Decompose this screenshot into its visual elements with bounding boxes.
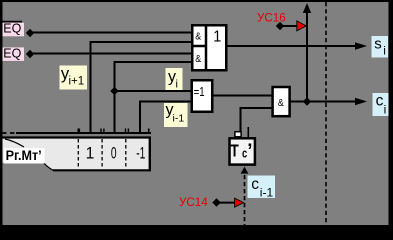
svg-text:УС14: УС14 xyxy=(179,195,208,209)
svg-text:Рг.Мт’: Рг.Мт’ xyxy=(6,148,42,164)
svg-text:&: & xyxy=(278,97,284,109)
svg-text:=1: =1 xyxy=(194,86,205,100)
svg-text:i-1: i-1 xyxy=(260,186,274,200)
svg-text:’: ’ xyxy=(247,141,252,162)
svg-text:0: 0 xyxy=(111,144,117,162)
svg-text:i: i xyxy=(384,103,387,117)
svg-text:УС16: УС16 xyxy=(257,10,286,24)
svg-text:EQ: EQ xyxy=(3,46,21,60)
svg-text:i-1: i-1 xyxy=(173,113,185,125)
svg-text:c: c xyxy=(251,176,259,193)
svg-text:EQ: EQ xyxy=(3,21,21,35)
svg-text:1: 1 xyxy=(86,144,95,162)
svg-text:1: 1 xyxy=(213,28,221,46)
svg-text:&: & xyxy=(195,31,201,43)
svg-text:i: i xyxy=(383,44,386,58)
svg-text:c: c xyxy=(376,92,384,109)
svg-text:i+1: i+1 xyxy=(69,76,85,88)
svg-text:s: s xyxy=(374,35,382,52)
svg-text:-1: -1 xyxy=(136,144,145,162)
svg-text:i: i xyxy=(176,79,178,91)
svg-text:T: T xyxy=(230,142,239,161)
svg-text:&: & xyxy=(195,53,201,65)
